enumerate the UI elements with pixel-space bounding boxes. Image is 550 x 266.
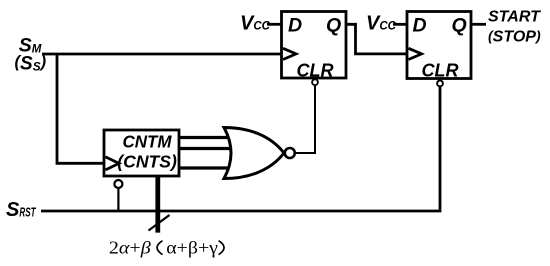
svg-text:α+β+γ: α+β+γ	[166, 238, 218, 258]
svg-text:CLR: CLR	[297, 61, 334, 81]
counter output bus (thick)	[155, 176, 160, 233]
wire VCC to U2 pin D	[393, 23, 407, 26]
U2 clock edge triangle	[409, 48, 422, 59]
wire counter output bit 1 to NOR input	[179, 136, 230, 139]
U1 clock edge triangle	[283, 48, 296, 59]
svg-text:(STOP): (STOP)	[488, 27, 541, 45]
wire counter output bit 2 to NOR input	[179, 147, 232, 150]
output label START (STOP)	[488, 8, 541, 45]
flip-flop U1 box	[282, 12, 347, 79]
bus width label close paren	[219, 241, 224, 255]
wire U2 CLR down to S_RST line	[439, 87, 442, 210]
U2 CLR bubble	[437, 81, 443, 87]
NOR gate output bubble	[285, 148, 295, 158]
svg-text:(CNTS): (CNTS)	[117, 152, 177, 172]
svg-text:CLR: CLR	[422, 61, 459, 81]
svg-text:D: D	[413, 14, 427, 36]
counter CNTM (CNTS) box	[104, 130, 179, 176]
wire counter output bit 3 to NOR input	[179, 166, 230, 169]
bus width slash mark	[149, 215, 170, 231]
counter reset bubble	[114, 180, 122, 188]
wire S_M branch down to counter clock	[57, 54, 104, 163]
bus width label open paren	[157, 241, 162, 255]
wire counter reset bubble to S_RST line	[117, 188, 119, 211]
counter clock edge triangle	[106, 157, 120, 170]
wire U2 Q output	[471, 23, 486, 26]
wire NOR output to U1 CLR	[296, 86, 315, 153]
wire U1 Q to U2 clock	[346, 24, 407, 54]
svg-text:CNTM: CNTM	[123, 132, 172, 152]
wire S_M to U1 clock	[42, 53, 282, 56]
NOR gate G1 body	[224, 128, 284, 179]
svg-text:START: START	[488, 8, 541, 25]
U1 CLR bubble	[312, 79, 318, 85]
signal label S_M (S_S)	[15, 35, 47, 75]
svg-text:2α+β: 2α+β	[109, 238, 151, 258]
flip-flop U2 box	[407, 12, 471, 79]
svg-text:Q: Q	[326, 14, 341, 36]
svg-text:Q: Q	[452, 14, 467, 36]
wire S_RST	[41, 210, 441, 213]
svg-text:D: D	[288, 14, 302, 36]
wire VCC to U1 pin D	[267, 23, 282, 26]
